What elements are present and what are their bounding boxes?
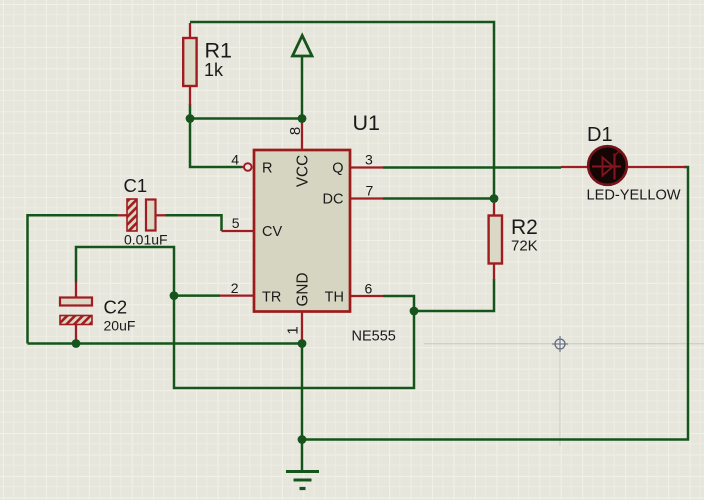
junction node pin1 / ground rail xyxy=(298,339,307,348)
svg-text:TR: TR xyxy=(262,289,281,305)
svg-text:5: 5 xyxy=(232,215,240,231)
wire LED cathode down and along bottom xyxy=(302,167,688,440)
svg-text:3: 3 xyxy=(365,152,373,168)
svg-text:20uF: 20uF xyxy=(104,317,136,333)
svg-text:U1: U1 xyxy=(353,111,380,135)
op-amp U1 555 timer body xyxy=(254,150,350,312)
pin 2 TR stub xyxy=(220,294,254,296)
wire TH/TR net: pin6 down, across, up left side to C2 top xyxy=(76,247,414,388)
pin 5 CV stub xyxy=(222,230,255,232)
wire VCC link xyxy=(190,117,302,120)
svg-text:1: 1 xyxy=(285,326,302,334)
junction node pin2 / left riser xyxy=(170,291,179,300)
svg-text:R1: R1 xyxy=(205,39,232,63)
pin 4 reset stub with bubble xyxy=(242,166,244,168)
svg-text:C1: C1 xyxy=(124,175,148,196)
sheet axis line vertical xyxy=(559,344,561,446)
LED D1 xyxy=(561,146,685,185)
pin 3 Q stub xyxy=(351,166,383,168)
power symbol VCC arrow xyxy=(293,36,313,57)
wire pin5 from C1 right xyxy=(166,215,222,231)
wire pin2 green part xyxy=(174,294,220,297)
pin 1 GND stub xyxy=(301,312,303,344)
capacitor C1 xyxy=(117,199,166,231)
capacitor C2 xyxy=(60,282,92,343)
svg-text:0.01uF: 0.01uF xyxy=(124,232,168,248)
wire VCC top rail: R1 top to right drop xyxy=(190,22,494,199)
svg-text:TH: TH xyxy=(325,289,344,305)
svg-text:LED-YELLOW: LED-YELLOW xyxy=(587,187,681,203)
wire ground rail bottom xyxy=(28,342,303,345)
wire C1 left to ground rail xyxy=(28,215,118,343)
origin marker xyxy=(552,336,568,352)
svg-text:7: 7 xyxy=(366,183,374,199)
svg-text:C2: C2 xyxy=(104,297,128,318)
sheet axis line horizontal xyxy=(424,343,704,345)
wire R2 bottom to TH node xyxy=(414,279,494,311)
svg-text:R: R xyxy=(262,160,272,176)
wire VCC arrow stem xyxy=(301,54,304,119)
junction node pin7 / R2 top xyxy=(490,194,499,203)
pin 7 DC stub xyxy=(351,197,383,199)
wire pin1 node down to ground symbol node xyxy=(301,344,304,440)
wire Q output to LED xyxy=(383,166,561,169)
wire R1 bottom to pin4 corner xyxy=(190,104,242,167)
svg-text:4: 4 xyxy=(231,152,239,168)
pin 6 TH stub xyxy=(351,295,383,297)
svg-text:GND: GND xyxy=(295,273,312,307)
svg-text:D1: D1 xyxy=(587,124,613,146)
wire pin7 to R2 top node xyxy=(383,197,494,200)
svg-text:2: 2 xyxy=(231,280,239,296)
svg-text:6: 6 xyxy=(365,281,373,297)
resistor R1 xyxy=(183,23,196,105)
junction node TH / R2 bottom xyxy=(410,307,419,316)
junction node C2 bottom / ground rail xyxy=(72,339,81,348)
svg-text:NE555: NE555 xyxy=(352,329,396,345)
svg-text:1k: 1k xyxy=(204,60,224,80)
resistor R2 xyxy=(489,199,502,281)
svg-text:8: 8 xyxy=(287,127,304,135)
ground symbol xyxy=(286,440,319,489)
pin 8 VCC stub xyxy=(301,120,303,150)
svg-text:CV: CV xyxy=(262,224,282,240)
junction node R1 bottom / VCC xyxy=(186,114,195,123)
junction node ground symbol / bottom rail xyxy=(298,435,307,444)
junction node VCC / pin8 xyxy=(298,114,307,123)
svg-text:Q: Q xyxy=(332,160,343,176)
svg-text:72K: 72K xyxy=(511,238,538,255)
svg-text:DC: DC xyxy=(323,192,344,208)
svg-text:VCC: VCC xyxy=(295,155,312,187)
svg-text:R2: R2 xyxy=(511,216,538,239)
